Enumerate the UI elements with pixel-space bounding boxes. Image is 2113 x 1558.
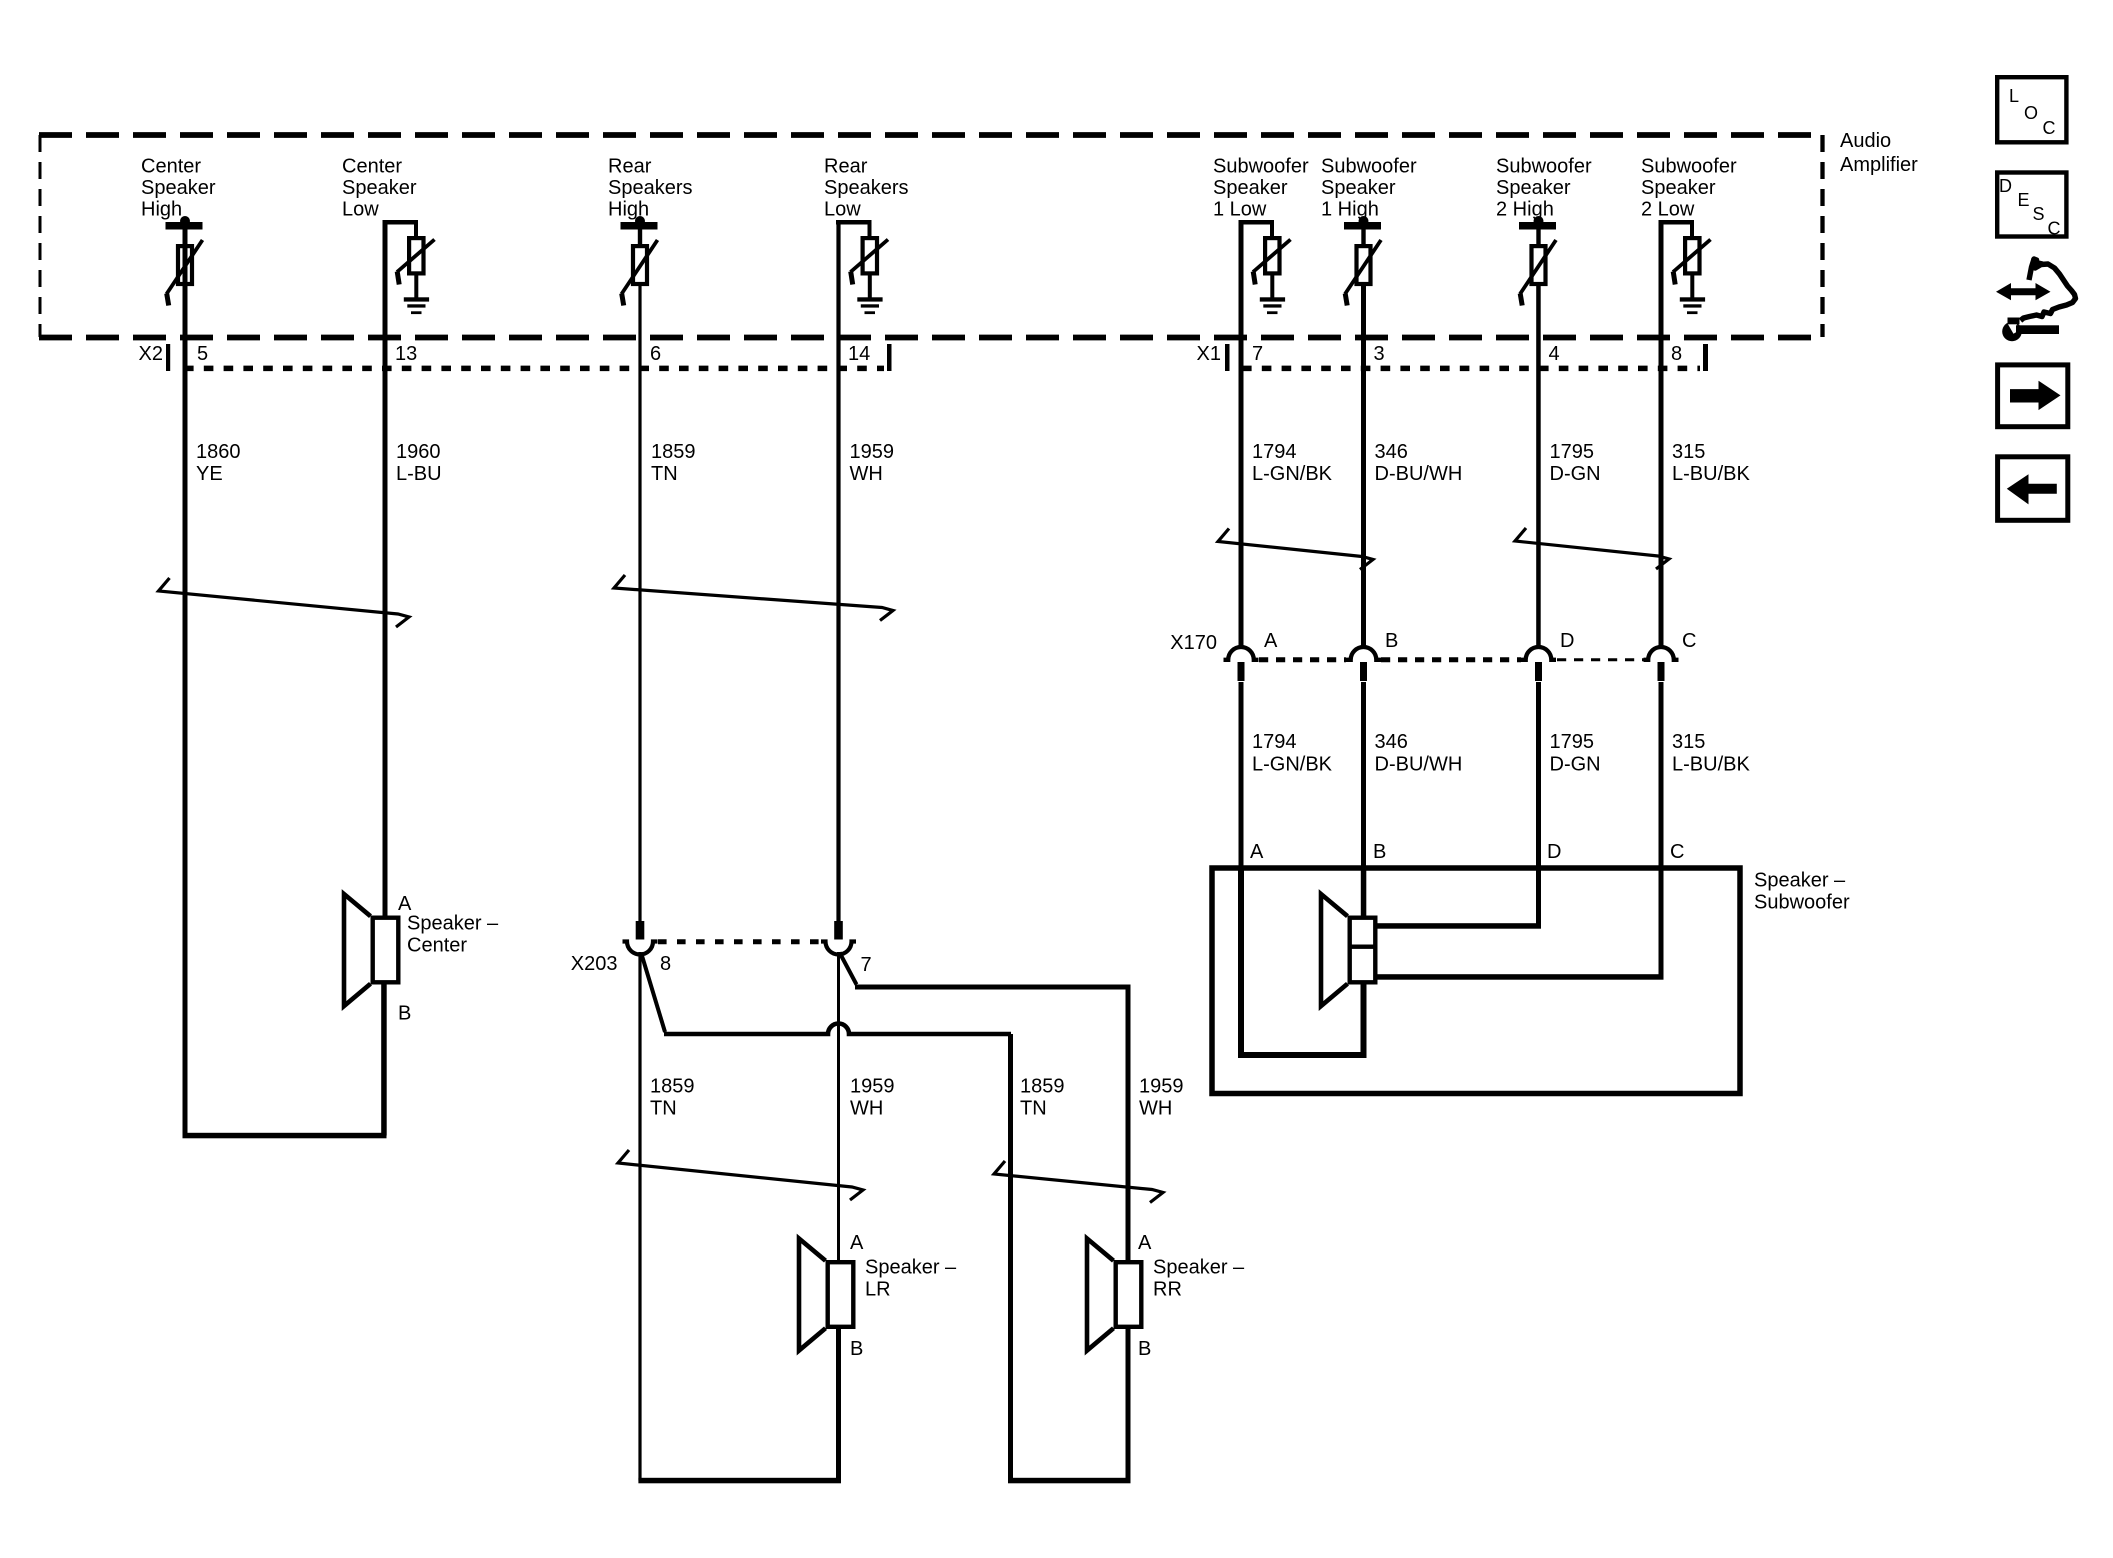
Rear Speakers High slash through element [622, 240, 658, 294]
svg-text:Subwoofer: Subwoofer [1213, 156, 1309, 178]
svg-text:S: S [2033, 204, 2045, 224]
Center Speaker High output terminal T-bar [180, 216, 190, 226]
svg-text:2 High: 2 High [1496, 199, 1554, 221]
Center Speaker Low ground symbol [404, 297, 429, 301]
connector X2 bracket [166, 344, 170, 371]
svg-text:Speakers: Speakers [824, 177, 909, 199]
svg-text:1794: 1794 [1252, 441, 1297, 463]
diagnostic icon squiggle outline [2021, 259, 2076, 321]
Center Speaker High slash through element [167, 240, 203, 294]
svg-text:Center: Center [141, 156, 201, 178]
connector X170 pin B [1360, 662, 1367, 681]
connector X203 pin 7 [834, 921, 843, 940]
diagnostic icon double arrow [1996, 283, 2051, 300]
connector X203 dashed line [658, 939, 821, 944]
wire 1794 L-GN/BK below X170 [1239, 682, 1244, 870]
svg-text:C: C [1682, 630, 1696, 652]
svg-text:Speaker: Speaker [1321, 177, 1396, 199]
svg-text:A: A [1264, 630, 1278, 652]
wire from X203 pin 8 diagonal [641, 953, 665, 1033]
svg-text:Speaker –: Speaker – [1153, 1257, 1245, 1279]
svg-text:1795: 1795 [1550, 441, 1595, 463]
svg-text:Low: Low [342, 199, 379, 221]
wire subwoofer A inner (down leg covered below) [1238, 1052, 1244, 1058]
svg-text:O: O [2024, 103, 2038, 123]
Center Speaker High stub wire [183, 229, 187, 245]
svg-text:RR: RR [1153, 1279, 1182, 1301]
svg-text:A: A [1250, 841, 1264, 863]
svg-text:1959: 1959 [850, 1076, 895, 1098]
back arrow icon box [1998, 457, 2068, 521]
svg-text:High: High [141, 199, 182, 221]
wire LR speaker B bottom run [638, 1478, 841, 1484]
svg-text:TN: TN [650, 1098, 677, 1120]
svg-text:1859: 1859 [1020, 1076, 1065, 1098]
wire 1860 YE from amp pin 5 [183, 229, 188, 1138]
connector X203 cavity 8 [623, 942, 658, 955]
Subwoofer Speaker 1 High resistive element box [1357, 246, 1371, 284]
svg-text:8: 8 [660, 953, 671, 975]
svg-text:TN: TN [1020, 1098, 1047, 1120]
svg-text:D-BU/WH: D-BU/WH [1375, 754, 1463, 776]
svg-text:WH: WH [1139, 1098, 1172, 1120]
LOC icon box [1997, 77, 2066, 142]
Rear Speakers Low ground stub [868, 274, 872, 298]
svg-text:346: 346 [1375, 731, 1408, 753]
svg-text:Speaker –: Speaker – [407, 913, 499, 935]
connector X2 dotted line [184, 366, 884, 372]
speaker RR terminal box [1116, 1262, 1142, 1327]
svg-text:L-GN/BK: L-GN/BK [1252, 754, 1333, 776]
svg-text:D-GN: D-GN [1550, 463, 1601, 485]
wire RR speaker B riser [1126, 1329, 1131, 1481]
Center Speaker Low slash through element [397, 240, 435, 273]
Center Speaker Low output jog wire [383, 220, 419, 225]
svg-text:7: 7 [1252, 343, 1263, 365]
wire 1960 L-BU from amp pin 13 [383, 222, 388, 917]
svg-text:1959: 1959 [850, 441, 895, 463]
svg-text:Low: Low [824, 199, 861, 221]
diagnostic icon wrench [2002, 322, 2022, 342]
wire center speaker B riser [381, 983, 387, 1136]
svg-text:B: B [1138, 1338, 1151, 1360]
connector X203 pin 8 [636, 921, 645, 940]
Subwoofer Speaker 1 High stub wire [1361, 229, 1365, 245]
svg-text:B: B [850, 1338, 863, 1360]
svg-text:1960: 1960 [396, 441, 441, 463]
svg-text:WH: WH [850, 1098, 883, 1120]
svg-text:2 Low: 2 Low [1641, 199, 1695, 221]
svg-text:X2: X2 [139, 343, 163, 365]
splice break symbol on RR speaker circuit [994, 1161, 1163, 1203]
Subwoofer Speaker 2 Low ground symbol [1680, 297, 1705, 301]
wire subwoofer inner D run [1377, 923, 1541, 929]
forward arrow icon box [1998, 365, 2068, 427]
svg-text:B: B [1385, 630, 1398, 652]
svg-text:B: B [398, 1003, 411, 1025]
svg-text:C: C [2048, 218, 2061, 238]
diagnostic icon squiggle arrowhead [2031, 259, 2044, 270]
Subwoofer Speaker 2 Low output jog wire [1659, 220, 1695, 225]
connector X1 bracket [1225, 344, 1230, 371]
wire 1795 D-GN below X170 [1536, 682, 1541, 928]
svg-text:6: 6 [650, 343, 661, 365]
wire RR speaker B bottom run [1008, 1478, 1131, 1484]
wire subwoofer inner A riser [1361, 982, 1367, 1055]
svg-text:1 High: 1 High [1321, 199, 1379, 221]
subwoofer terminal divider [1348, 945, 1378, 949]
svg-text:D: D [1560, 630, 1574, 652]
speaker LR cone [799, 1239, 826, 1351]
connector X170 cavity A [1224, 647, 1259, 660]
Center Speaker Low resistive element box [409, 238, 423, 273]
connector X1 end bracket [1703, 344, 1708, 371]
svg-text:315: 315 [1672, 731, 1705, 753]
svg-text:LR: LR [865, 1279, 891, 1301]
DESC icon box [1997, 173, 2066, 237]
Subwoofer Speaker 2 Low resistive element box [1685, 238, 1699, 273]
svg-text:Speaker: Speaker [1641, 177, 1716, 199]
Rear Speakers Low ground symbol [857, 297, 882, 301]
svg-text:Center: Center [342, 156, 402, 178]
splice break symbol on circuit 1859/1959 [614, 575, 893, 621]
svg-text:1795: 1795 [1550, 731, 1595, 753]
Center Speaker Low ground stub [414, 274, 418, 298]
svg-text:1794: 1794 [1252, 731, 1297, 753]
svg-text:C: C [2043, 118, 2056, 138]
wire 1959 WH from amp pin 14 [836, 222, 840, 923]
wire 315 L-BU/BK from amp pin 8 [1659, 222, 1664, 649]
wire 1959 WH to RR A [855, 985, 1131, 990]
back arrow [2007, 474, 2057, 504]
svg-text:Speaker: Speaker [1496, 177, 1571, 199]
svg-text:1859: 1859 [651, 441, 696, 463]
svg-text:X170: X170 [1170, 632, 1217, 654]
Subwoofer Speaker 1 Low ground stub [1270, 274, 1274, 298]
svg-text:Amplifier: Amplifier [1840, 154, 1918, 176]
connector X170 cavity C [1644, 647, 1679, 660]
svg-text:D: D [1999, 176, 2012, 196]
svg-text:7: 7 [861, 954, 872, 976]
svg-text:14: 14 [848, 343, 870, 365]
Audio Amplifier dashed box bottom edge [39, 335, 1823, 341]
wire 1859 TN run to RR speaker B with hop over 1959 [664, 1024, 1011, 1035]
Subwoofer Speaker 1 Low output jog wire [1239, 220, 1275, 225]
svg-text:X203: X203 [571, 953, 618, 975]
connector X170 cavity B [1346, 647, 1381, 660]
wire 346 D-BU/WH below X170 [1361, 682, 1366, 918]
Subwoofer Speaker 2 Low slash through element [1673, 240, 1711, 273]
wire 346 D-BU/WH from amp pin 3 [1361, 284, 1366, 649]
svg-text:D: D [1547, 841, 1561, 863]
wire 1959 WH down to LR A [837, 952, 840, 1262]
svg-text:Speaker: Speaker [1213, 177, 1288, 199]
Speaker - Subwoofer box [1212, 868, 1740, 1094]
connector X1 dotted line [1242, 366, 1700, 372]
svg-text:Subwoofer: Subwoofer [1754, 892, 1850, 914]
svg-text:L-BU/BK: L-BU/BK [1672, 463, 1750, 485]
speaker RR cone [1087, 1239, 1114, 1351]
wire subwoofer inner C run [1377, 974, 1664, 980]
Subwoofer Speaker 2 Low ground stub [1690, 274, 1694, 298]
svg-text:Subwoofer: Subwoofer [1321, 156, 1417, 178]
Audio Amplifier dashed box right edge [1820, 135, 1824, 337]
wire 1859 TN down to LR B loop [638, 952, 641, 1481]
svg-text:Subwoofer: Subwoofer [1641, 156, 1737, 178]
connector X170 dashed line D-C [1557, 658, 1644, 661]
svg-text:L-BU/BK: L-BU/BK [1672, 754, 1750, 776]
svg-text:Center: Center [407, 935, 467, 957]
Subwoofer Speaker 2 High resistive element box [1532, 246, 1546, 284]
Subwoofer Speaker 1 High output terminal T-bar [1359, 216, 1369, 226]
svg-text:1 Low: 1 Low [1213, 199, 1267, 221]
connector X203 cavity 7 [821, 942, 856, 955]
wire subwoofer inner A bottom run [1238, 1052, 1367, 1058]
svg-text:D-GN: D-GN [1550, 754, 1601, 776]
splice break symbol on circuit 1860/1960 [159, 578, 410, 627]
svg-text:1860: 1860 [196, 441, 241, 463]
speaker Center cone [344, 894, 371, 1006]
Subwoofer Speaker 2 High stub wire [1536, 229, 1540, 245]
Subwoofer Speaker 1 High slash through element [1345, 240, 1381, 294]
wire 1859 TN down to RR B loop [1008, 1034, 1013, 1481]
svg-text:Speaker: Speaker [342, 177, 417, 199]
svg-text:C: C [1670, 841, 1684, 863]
svg-text:L-BU: L-BU [396, 463, 442, 485]
wire LR speaker B riser [836, 1329, 841, 1481]
Rear Speakers High resistive element box [633, 246, 647, 284]
forward arrow [2010, 381, 2061, 410]
Subwoofer Speaker 1 Low slash through element [1253, 240, 1291, 273]
svg-text:315: 315 [1672, 441, 1705, 463]
svg-text:L-GN/BK: L-GN/BK [1252, 463, 1333, 485]
connector X170 pin A [1238, 662, 1245, 681]
splice break symbol on circuit 1794/346 [1218, 529, 1373, 570]
svg-text:X1: X1 [1197, 343, 1221, 365]
svg-text:TN: TN [651, 463, 678, 485]
wire 315 L-BU/BK below X170 [1659, 682, 1664, 979]
speaker Subwoofer terminal box [1350, 918, 1376, 983]
Subwoofer Speaker 2 High slash through element [1520, 240, 1556, 294]
svg-text:Speaker –: Speaker – [865, 1257, 957, 1279]
svg-text:Rear: Rear [608, 156, 652, 178]
connector X170 pin C [1658, 662, 1665, 681]
svg-text:YE: YE [196, 463, 223, 485]
wire 1859 TN from amp pin 6 [638, 284, 641, 923]
svg-text:B: B [1373, 841, 1386, 863]
svg-text:D-BU/WH: D-BU/WH [1375, 463, 1463, 485]
svg-text:4: 4 [1549, 343, 1560, 365]
wire 1794 L-GN/BK from amp pin 7 [1239, 222, 1244, 649]
connector X170 cavity D [1521, 647, 1556, 660]
wire subwoofer inner B drop [1361, 868, 1367, 918]
svg-text:13: 13 [395, 343, 417, 365]
svg-text:3: 3 [1374, 343, 1385, 365]
svg-text:1959: 1959 [1139, 1076, 1184, 1098]
svg-text:A: A [850, 1232, 864, 1254]
speaker Center terminal box [373, 918, 399, 983]
connector X170 dashed line B-D [1381, 657, 1521, 662]
wire 1795 D-GN from amp pin 4 [1536, 284, 1541, 649]
Rear Speakers High stub wire [638, 229, 642, 245]
Rear Speakers Low resistive element box [863, 238, 877, 273]
svg-text:Speakers: Speakers [608, 177, 693, 199]
speaker LR terminal box [828, 1262, 854, 1327]
svg-text:Subwoofer: Subwoofer [1496, 156, 1592, 178]
Subwoofer Speaker 2 High output terminal T-bar [1534, 216, 1544, 226]
connector X170 pin D [1535, 662, 1542, 681]
svg-text:346: 346 [1375, 441, 1408, 463]
Subwoofer Speaker 1 Low ground symbol [1260, 297, 1285, 301]
splice break symbol on circuit 1795/315 [1515, 528, 1669, 569]
wire 1960 into center speaker A [383, 915, 388, 918]
svg-text:Speaker –: Speaker – [1754, 870, 1846, 892]
svg-text:E: E [2018, 190, 2030, 210]
svg-text:8: 8 [1671, 343, 1682, 365]
splice break symbol on LR speaker circuit [618, 1150, 863, 1200]
Rear Speakers Low output jog wire [836, 220, 872, 225]
svg-text:Speaker: Speaker [141, 177, 216, 199]
Subwoofer Speaker 1 Low resistive element box [1265, 238, 1279, 273]
connector X2 end bracket [887, 344, 892, 371]
svg-text:1859: 1859 [650, 1076, 695, 1098]
Audio Amplifier dashed box top edge [39, 132, 1823, 138]
Rear Speakers High output terminal T-bar [635, 216, 645, 226]
svg-text:A: A [1138, 1232, 1152, 1254]
wire from X203 pin 7 diagonal [840, 953, 857, 985]
svg-text:5: 5 [197, 343, 208, 365]
connector X170 dashed line A-B [1259, 657, 1346, 662]
wire 1860 YE bottom run [183, 1133, 387, 1139]
Center Speaker High resistive element box [178, 246, 192, 284]
speaker Subwoofer cone [1321, 894, 1348, 1006]
svg-text:WH: WH [850, 463, 883, 485]
wire subwoofer inner A drop [1238, 868, 1244, 1055]
svg-text:L: L [2009, 86, 2019, 106]
wire 1959 WH down to RR A [1126, 987, 1131, 1262]
svg-text:Audio: Audio [1840, 130, 1891, 152]
svg-text:Rear: Rear [824, 156, 868, 178]
Audio Amplifier dashed box left edge [39, 135, 42, 337]
Rear Speakers Low slash through element [851, 240, 889, 273]
